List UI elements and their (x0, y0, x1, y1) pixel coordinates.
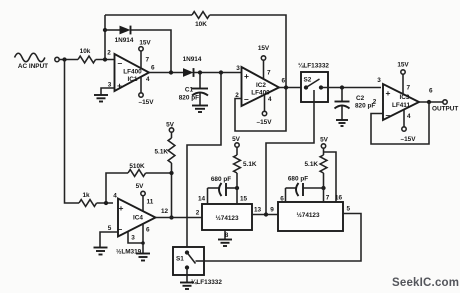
svg-text:3: 3 (377, 77, 381, 84)
node IC4 output (169, 215, 173, 219)
wire IC2 unity feedback loop (235, 88, 286, 132)
wire 510K feedback left leg (106, 173, 128, 203)
wire IC4 output (156, 217, 203, 219)
svg-text:7: 7 (326, 195, 330, 202)
diode D1 1N914 feedback (120, 26, 131, 35)
svg-text:+: + (386, 88, 391, 98)
svg-text:AC INPUT: AC INPUT (18, 63, 48, 70)
wire 1k to IC4 (97, 202, 113, 204)
svg-text:680 pF: 680 pF (211, 176, 231, 183)
monostable U2a 1/2 74123 (202, 204, 252, 230)
svg-text:5: 5 (108, 225, 112, 232)
node control tap (264, 212, 268, 216)
wire pin16 Vcc (324, 152, 337, 202)
svg-text:9: 9 (270, 207, 274, 214)
svg-text:–: – (244, 94, 249, 104)
pin 8 ground stub (224, 230, 226, 239)
svg-text:S1: S1 (176, 256, 184, 263)
svg-text:12: 12 (161, 208, 169, 215)
svg-text:7: 7 (146, 57, 150, 64)
capacitor C2 820 pF (341, 88, 343, 102)
svg-text:4: 4 (146, 76, 150, 83)
svg-text:6: 6 (282, 78, 286, 85)
wire 510K to node (146, 172, 172, 174)
wire S2 control line (266, 90, 314, 215)
supply -15V IC3 pin4 (403, 110, 405, 127)
wire diode to IC2 (194, 72, 244, 74)
wire input to R1 (60, 59, 79, 61)
op-amp IC2 LF400 (242, 67, 280, 106)
node input junction (62, 57, 66, 61)
svg-text:7: 7 (407, 85, 411, 92)
wire input down to comparator branch (65, 60, 80, 204)
node feedback return (169, 70, 173, 74)
svg-text:4: 4 (113, 193, 117, 200)
svg-text:5V: 5V (136, 183, 145, 190)
wire 10K to IC2 output (210, 15, 286, 88)
svg-text:5.1K: 5.1K (305, 161, 319, 168)
wire S2 to IC3 (321, 87, 381, 89)
svg-text:C1: C1 (185, 87, 194, 94)
svg-text:2: 2 (107, 50, 111, 57)
svg-text:+: + (117, 81, 122, 91)
node pin15 (235, 186, 239, 190)
node C1 tap (198, 70, 202, 74)
svg-text:5V: 5V (232, 136, 241, 143)
capacitor 680 pF U2a (208, 187, 219, 189)
svg-text:10k: 10k (80, 48, 91, 55)
svg-text:IC2: IC2 (256, 82, 266, 89)
wire IC3 feedback loop (371, 102, 429, 144)
pin 7 stub (323, 188, 325, 202)
svg-text:5V: 5V (320, 137, 329, 144)
svg-text:½LM319: ½LM319 (116, 248, 142, 256)
pin 3 ground stub (128, 232, 143, 244)
svg-text:3: 3 (131, 235, 135, 242)
svg-text:5: 5 (347, 206, 351, 213)
svg-text:8: 8 (225, 232, 229, 239)
svg-text:1N914: 1N914 (183, 56, 202, 63)
AC input source squiggle (15, 53, 45, 62)
node IC1 inverting input (103, 57, 107, 61)
wire diode to output node (131, 30, 172, 73)
comparator IC4 LM319 (118, 199, 156, 237)
resistor 5.1K U2a (234, 155, 241, 173)
resistor 510K (128, 170, 146, 177)
monostable U2b 1/2 74123 (278, 202, 343, 231)
svg-text:5.1K: 5.1K (155, 149, 169, 156)
svg-text:14: 14 (198, 196, 206, 203)
svg-text:¼LF13332: ¼LF13332 (298, 62, 329, 70)
svg-text:OUTPUT: OUTPUT (432, 106, 458, 113)
pin 15 stub (236, 188, 238, 204)
svg-text:10K: 10K (195, 21, 207, 28)
wire IC2 output to S2 (279, 87, 301, 89)
svg-text:–: – (386, 110, 391, 120)
switch S1 1/4LF13332 (173, 247, 204, 275)
svg-text:SeekIC.com: SeekIC.com (392, 277, 459, 289)
svg-text:6: 6 (151, 65, 155, 72)
svg-text:4: 4 (268, 96, 272, 103)
wire diode feedback run (105, 29, 120, 31)
svg-text:IC3: IC3 (400, 94, 410, 101)
svg-text:15: 15 (240, 196, 248, 203)
resistor 1k comparator input (79, 200, 97, 207)
wire pin5 to S1 control (204, 214, 361, 262)
svg-text:1k: 1k (82, 192, 90, 199)
svg-text:6: 6 (280, 196, 284, 203)
svg-text:C2: C2 (356, 95, 365, 102)
capacitor 680 pF U2b (286, 187, 296, 189)
ground C2 (336, 120, 348, 126)
svg-text:+: + (244, 71, 249, 81)
node 510K tap (169, 171, 173, 175)
svg-text:–: – (118, 58, 123, 68)
resistor 10K feedback (192, 12, 210, 19)
svg-text:15V: 15V (397, 62, 409, 69)
op-amp IC1 LF400 (115, 54, 150, 91)
wire pin13 to pin9 (252, 214, 278, 216)
ground IC1 (94, 95, 108, 102)
svg-text:16: 16 (335, 195, 343, 202)
svg-text:LF400: LF400 (123, 69, 142, 76)
wire IC1 pin3 to ground (101, 88, 115, 95)
pin 6 stub (285, 188, 287, 202)
svg-text:15V: 15V (139, 40, 151, 47)
svg-text:+: + (119, 203, 124, 213)
pin 14 stub (207, 188, 209, 204)
node diode feedback tap (103, 28, 107, 32)
svg-text:2: 2 (196, 210, 200, 217)
wire pull-up to output node (171, 163, 173, 218)
ground IC4 pin5 (94, 248, 108, 255)
output terminal (443, 100, 447, 104)
wire R1 to IC1 pin2 (96, 59, 114, 61)
svg-text:¼LF13332: ¼LF13332 (191, 278, 222, 286)
wire IC3 output (419, 101, 443, 103)
wire feedback riser (104, 15, 106, 60)
svg-text:IC4: IC4 (133, 215, 143, 222)
resistor 10k input (78, 56, 96, 63)
node IC4 input (104, 201, 108, 205)
svg-text:–15V: –15V (139, 99, 155, 106)
svg-text:7: 7 (267, 70, 271, 77)
wire S1 to ground (186, 268, 188, 283)
ground S1 (180, 283, 194, 290)
resistor 5.1K U2b (320, 155, 327, 173)
capacitor C1 820 pF (199, 73, 201, 89)
svg-text:510K: 510K (129, 163, 145, 170)
resistor 5.1K pull-up comparator (168, 138, 175, 163)
op-amp IC3 LF411 (383, 84, 419, 120)
svg-text:½74123: ½74123 (215, 214, 239, 222)
node IC2 output (284, 85, 288, 89)
svg-text:LF411: LF411 (392, 102, 411, 109)
wire top feedback run (105, 14, 192, 16)
svg-text:6: 6 (429, 88, 433, 95)
ground C1 (192, 106, 208, 113)
node C2 tap (340, 85, 344, 89)
supply -15V IC1 pin4 (140, 77, 142, 93)
wire reset jog to S1 (187, 73, 221, 253)
svg-text:–15V: –15V (257, 119, 273, 126)
wire IC1 output run (149, 72, 184, 74)
svg-text:S2: S2 (304, 77, 312, 84)
svg-text:4: 4 (407, 113, 411, 120)
svg-text:820 pF: 820 pF (179, 95, 199, 102)
svg-text:½74123: ½74123 (296, 211, 320, 219)
ground IC4 pin6 (136, 254, 150, 261)
diode D2 1N914 series (183, 68, 194, 77)
node output feedback tap (427, 100, 431, 104)
svg-text:2: 2 (373, 99, 377, 106)
node pin7 (321, 186, 325, 190)
input terminal (55, 57, 59, 61)
node reset tap (219, 70, 223, 74)
supply -15V IC2 pin4 (264, 95, 266, 112)
pin 6 ground stub (142, 223, 144, 253)
svg-text:5.1K: 5.1K (243, 161, 257, 168)
svg-text:680 pF: 680 pF (288, 176, 308, 183)
svg-text:–15V: –15V (401, 136, 417, 143)
svg-text:15V: 15V (258, 45, 270, 52)
svg-text:13: 13 (254, 207, 262, 214)
wire IC4 pin5 to ground (100, 232, 118, 247)
svg-text:–: – (118, 224, 123, 234)
svg-text:IC1: IC1 (128, 76, 138, 83)
svg-text:6: 6 (146, 227, 150, 234)
svg-text:11: 11 (147, 199, 154, 206)
svg-text:3: 3 (236, 65, 240, 72)
ground U2a (218, 240, 232, 247)
svg-text:1N914: 1N914 (115, 37, 134, 44)
